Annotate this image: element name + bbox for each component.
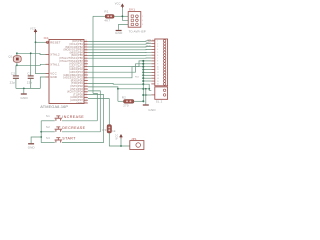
junction bus x143 y101.3 [142,100,144,102]
IC1 right pin row 13 stub [84,74,88,76]
wire LED horizontal [118,88,149,90]
svg-text:(SS/OC1B)PB2: (SS/OC1B)PB2 [65,47,84,49]
connector SL1 pin 12 [151,71,155,73]
svg-text:START: START [62,137,76,141]
svg-text:11: 11 [157,69,159,71]
wire stair net 1 [88,61,152,67]
connector SL1 pin 6 [151,54,155,56]
ground switches GND [28,143,34,145]
wire S2 net [62,91,100,132]
wire S1 net up [93,93,97,120]
connector SL1 pin 7 [151,57,155,59]
junction bus x143 y84.2 [142,83,144,85]
wire S3 net [62,94,103,142]
connector SL1 pin 2 [151,43,155,45]
connector SL1 pin 16 [151,83,155,85]
IC1 right pin row 1 stub [84,40,88,42]
wire bus row 2 [88,43,152,46]
svg-text:(AIN1)PD7: (AIN1)PD7 [70,99,83,102]
svg-text:17: 17 [85,51,87,53]
wire row 78 to SL1 [143,77,151,79]
svg-text:JP1: JP1 [131,137,137,141]
svg-text:270: 270 [123,103,129,107]
svg-text:S2: S2 [46,125,50,129]
svg-text:Q1: Q1 [8,54,13,58]
IC1 right pin row 10 stub [84,66,88,68]
svg-text:(ICP)PB0: (ICP)PB0 [72,41,84,43]
svg-text:2: 2 [142,16,143,18]
svg-text:8: 8 [157,61,158,63]
svg-text:14: 14 [157,78,159,80]
svg-text:3: 3 [157,46,158,48]
svg-text:9: 9 [157,64,158,66]
IC1 right pin row 14 stub [84,77,88,79]
connector SL1 pin 8 [151,60,155,62]
IC1 right pin row 8 stub [84,60,88,62]
svg-text:6: 6 [142,24,143,26]
svg-text:7: 7 [157,58,158,60]
junction bus x143 y88.8 [142,88,144,90]
svg-text:25: 25 [85,68,87,70]
wire S1 left [41,120,55,122]
junction Q1 bottom node [16,64,18,66]
svg-text:(MISO)PB4: (MISO)PB4 [70,52,84,54]
IC1 right pin row 19 stub [84,91,88,93]
svg-text:11: 11 [85,93,87,95]
svg-text:21: 21 [85,102,87,104]
junction GND tap right upper [145,88,147,90]
svg-text:1: 1 [157,41,158,43]
connector SL2 box [155,87,168,99]
wire stair net 2 [88,64,152,72]
switch S1 pushbutton [55,116,62,121]
svg-text:AREF: AREF [76,102,83,105]
svg-text:(OC1A)PB1: (OC1A)PB1 [69,43,83,46]
IC1 right pin row 18 stub [84,88,88,90]
wire S2 left [41,131,55,133]
svg-text:(INT0)PD2: (INT0)PD2 [70,86,83,88]
svg-text:(XCK/T0)PD4: (XCK/T0)PD4 [67,92,84,94]
junction bus x143 y69.55 [142,69,144,71]
svg-text:C1: C1 [27,71,31,75]
junction GND tap right [145,94,147,96]
junction Q1 top node [16,52,18,54]
switch S3 pushbutton [55,138,62,143]
svg-text:XTAL2: XTAL2 [50,53,60,57]
svg-text:R2: R2 [122,95,126,99]
IC1 right pin row 21 stub [84,96,88,98]
power VCC symbol top [121,3,125,8]
junction bus x143 y75.3 [142,74,144,76]
wire row 69 to SL1 [143,69,151,71]
svg-text:22p: 22p [27,81,33,85]
IC1 right pin row 6 stub [84,54,88,56]
crystal Q1 [13,56,21,63]
wire power net upper [88,99,110,125]
svg-text:(TXD)PD1: (TXD)PD1 [71,83,84,85]
wire row 81 to SL1 [143,80,151,82]
svg-text:4: 4 [142,20,143,22]
wire ISP GND [119,24,129,30]
svg-text:R3: R3 [102,128,106,132]
connector SL1 pin 11 [151,69,155,71]
svg-text:27: 27 [85,74,87,76]
svg-text:VCC: VCC [115,3,121,6]
svg-text:2: 2 [157,43,158,45]
svg-text:10: 10 [157,66,159,68]
svg-text:26: 26 [85,71,87,73]
svg-text:VCC: VCC [115,134,118,140]
connector SL1 pin 3 [151,46,155,48]
junction bus x143 y72.43 [142,71,144,73]
IC1 right pin row 16 stub [84,82,88,84]
svg-text:23: 23 [85,62,87,64]
junction bus x143 y81.05 [142,80,144,82]
connector SL2 pins [163,89,166,92]
svg-text:10: 10 [85,60,87,62]
svg-text:DECREASE: DECREASE [62,126,85,130]
svg-text:RESET: RESET [50,40,61,44]
junction x149 [148,88,150,90]
wire bus vertical x143 [142,61,144,101]
svg-text:MISO: MISO [146,43,151,45]
junction LED corner [117,88,119,90]
wire GND rail [16,87,40,89]
svg-text:(ADC4/SDA)PC4: (ADC4/SDA)PC4 [63,74,83,77]
capacitor C1 [28,76,34,78]
capacitor C2 [13,76,19,78]
svg-text:GND: GND [148,108,156,112]
svg-text:16: 16 [157,84,159,86]
wire bus row 3 [88,46,152,49]
wire to SL2 pin1 [88,83,152,90]
resistor R2 [124,100,134,104]
connector SV1 AVR-ISP box [128,12,141,28]
svg-text:GND: GND [50,75,57,79]
svg-text:(XTAL1/TOSC1)PB6: (XTAL1/TOSC1)PB6 [59,57,83,60]
ground ISP GND [116,30,122,32]
svg-text:24: 24 [85,65,87,67]
svg-text:(ADC0)PC0: (ADC0)PC0 [69,63,83,66]
IC1 RESET pin inversion bubble [46,41,48,43]
connector SL1 pin 14 [151,77,155,79]
connector SL1 pin 9 [151,63,155,65]
IC1 pin XTAL1 stub [46,63,50,65]
wire S1 right [62,120,97,122]
IC1 right pin row 4 stub [84,49,88,51]
wire row 75 to SL1 [143,74,151,76]
wire C1 top lead [30,53,32,75]
IC1 right pin row 9 stub [84,63,88,65]
wire R2 feed [88,87,118,101]
junction bus x143 y78.18 [142,77,144,79]
svg-text:15: 15 [85,46,87,48]
connector SL1 pin 10 [151,66,155,68]
wire C1 bottom lead [30,78,32,88]
wire switch GND rail [40,121,42,143]
wire XTAL2 net [17,53,46,54]
connector JP1 box [130,141,144,150]
junction bus x143 y95.0 [142,94,144,96]
svg-text:INCREASE: INCREASE [62,115,84,119]
svg-text:(MOSI/OC2)PB3: (MOSI/OC2)PB3 [64,50,84,52]
wire GND stem right [145,89,147,105]
IC1 right pin row 22 stub [84,99,88,101]
wire VCC to ISP [122,8,128,20]
junction rail branch [40,136,42,138]
svg-text:13: 13 [157,75,159,77]
wire power net lower [109,133,130,146]
svg-text:ATMEGA8-16P: ATMEGA8-16P [40,104,68,109]
wire bus row 4 [88,48,152,50]
junction GND rail [23,88,25,90]
svg-text:(T1)PD5: (T1)PD5 [73,94,83,96]
connector SV1 pin row 3 [131,23,133,25]
svg-text:GND: GND [28,145,35,149]
wire to GND bottom left [31,137,41,143]
wire bus row 6 [88,54,152,56]
wire R2 to bus [134,100,143,102]
wire bus row 7 [88,57,152,59]
IC1 pin VCC stub [46,73,50,75]
junction bus x143 y66.68 [142,66,144,68]
svg-text:TO AVR-ISP: TO AVR-ISP [129,29,146,33]
connector SL1 pin 15 [151,80,155,82]
IC1 right pin row 7 stub [84,57,88,59]
wire GND stem [23,88,25,93]
IC1 right pin row 5 stub [84,52,88,54]
svg-text:5: 5 [157,52,158,54]
ground crystal GND [21,93,27,95]
svg-text:22p: 22p [10,81,16,85]
wire stair net 3 [88,67,152,78]
junction bus x143 y63.8 [142,63,144,65]
svg-text:(RXD)PD0: (RXD)PD0 [71,80,84,82]
wire bus row 1 [88,40,152,43]
IC1 pin GND stub [46,76,50,78]
IC1 right pin row 17 stub [84,85,88,87]
connector SL1 pin 13 [151,74,155,76]
svg-text:(INT1)PD3: (INT1)PD3 [70,89,83,91]
IC1 right pin row 23 stub [84,102,88,104]
svg-text:12: 12 [157,72,159,74]
svg-text:15: 15 [157,81,159,83]
wire VCC bottom stem [120,139,122,146]
svg-text:4K7: 4K7 [104,18,110,22]
power VCC symbol bottom [119,134,123,139]
svg-text:C2: C2 [11,71,15,75]
wire Q1 bottom lead [16,62,18,65]
power VCC symbol left [34,29,38,34]
svg-text:(ADC2)PC2: (ADC2)PC2 [69,68,83,71]
svg-text:VCC: VCC [50,72,57,76]
IC1 right pin row 20 stub [84,94,88,96]
svg-text:SV1: SV1 [129,8,135,12]
junction RESET tap [35,41,37,43]
svg-text:(ADC1)PC1: (ADC1)PC1 [69,65,83,68]
IC1 right pin row 2 stub [84,43,88,45]
connector JP1 pin [136,143,141,148]
svg-text:GND: GND [20,96,28,100]
junction bus x143 y60.93 [142,60,144,62]
wire S3 left [41,142,55,144]
IC1 ATMEGA8 box [49,40,84,104]
IC1 pin RESET stub [46,41,50,43]
svg-text:13: 13 [85,99,87,101]
connector SL1 pin 4 [151,48,155,50]
svg-text:14: 14 [85,43,87,45]
svg-text:28: 28 [85,76,87,78]
junction VCC-R1 [122,15,124,17]
IC1 right pin row 3 stub [84,46,88,48]
svg-text:PD4: PD4 [135,76,139,78]
wire to R2 [118,100,124,102]
wire XTAL1 net [17,64,46,65]
wire to R1 [93,15,105,17]
IC1 right pin row 12 stub [84,71,88,73]
connector SL1 pin 5 [151,51,155,53]
wire VCC to IC VCC pin [36,34,46,74]
ground right GND [143,104,149,106]
wire to SL2 pin2 [143,94,151,96]
wire to RESET pin [36,41,46,43]
wire Q1 top lead [16,53,18,55]
svg-text:13: 13 [85,40,87,42]
resistor R3 (vertical) [107,125,111,133]
svg-text:(XTAL2/TOSC2)PB7: (XTAL2/TOSC2)PB7 [59,60,83,63]
connector SV1 pin row 1 [131,15,133,17]
svg-text:18: 18 [85,54,87,56]
svg-text:GND: GND [115,31,123,35]
wire bus row 5 [88,51,152,53]
svg-text:S3: S3 [46,136,50,140]
svg-text:IC1: IC1 [44,36,49,40]
connector SL1 box [155,39,168,86]
svg-text:MOSI: MOSI [146,46,151,48]
wire C2 bottom lead [15,78,17,88]
svg-text:12: 12 [85,96,87,98]
wire IC GND pin net [40,77,45,88]
connector SV1 pin row 2 [131,19,133,21]
svg-text:1k: 1k [112,129,116,133]
svg-text:16: 16 [85,48,87,50]
svg-text:(AIN0)PD6: (AIN0)PD6 [70,96,83,99]
switch S2 pushbutton [55,127,62,132]
svg-text:(ADC3)PC3: (ADC3)PC3 [69,71,83,74]
wire row 72 to SL1 [143,71,151,73]
wire R1 to ISP [114,15,128,17]
junction rail S2 [40,131,42,133]
IC1 right pin row 15 stub [84,80,88,82]
svg-text:6: 6 [157,55,158,57]
svg-text:S1: S1 [46,114,50,118]
junction C1 tap [30,52,32,54]
svg-text:(ADC5/SCL)PC5: (ADC5/SCL)PC5 [63,77,83,80]
connector SL1 pin 1 [151,40,155,42]
svg-text:R1: R1 [104,10,108,14]
svg-text:4: 4 [157,49,158,51]
wire RESET vertical [92,16,94,93]
svg-text:SL 2: SL 2 [156,100,163,104]
IC1 pin XTAL2 stub [46,54,50,56]
wire C2 top lead [15,65,17,76]
svg-text:(SCK)PB5: (SCK)PB5 [71,55,84,57]
resistor R1 [105,15,114,19]
IC1 right pin row 11 stub [84,68,88,70]
junction VCC bottom [120,145,122,147]
